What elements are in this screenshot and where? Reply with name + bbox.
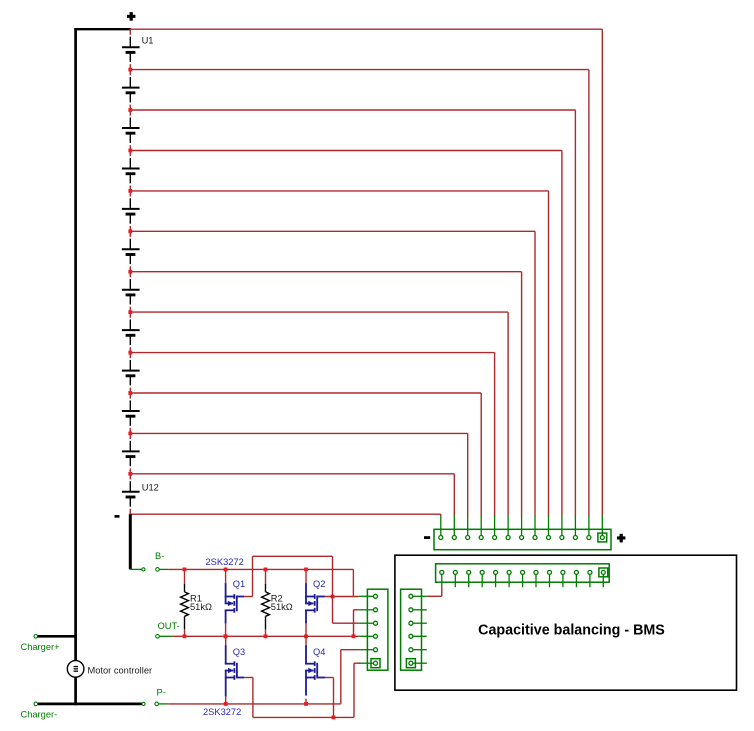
junction: tap 3 on battery string — [128, 108, 132, 112]
connector J4 pin 6 — [413, 662, 427, 664]
connector J2 pin 1 — [359, 595, 374, 597]
wire: Q3 gate to bottom gate wire — [237, 677, 244, 679]
battery cell U6 — [129, 231, 131, 237]
connector J3 pin 12 — [589, 574, 591, 587]
connector J3 pin 13 — [602, 574, 604, 587]
junction: tap 7 on battery string — [128, 270, 132, 274]
connector J3 pin 1 — [441, 574, 443, 587]
connector J4 pin 1 — [413, 595, 427, 597]
wire: P- rail riser to J2 pin 5 — [340, 650, 342, 704]
terminal: B- (circuit side) — [156, 568, 160, 572]
wire: P- rail — [168, 703, 340, 705]
svg-text:2SK3272: 2SK3272 — [203, 707, 241, 717]
wire: B- rail drop to J2 pin 1 — [352, 569, 354, 596]
connector J1 pin 13 — [601, 516, 603, 536]
junction: Q4 source on P- rail — [304, 702, 308, 706]
battery cell U3 — [129, 110, 131, 116]
battery cell U1 — [129, 29, 131, 35]
wire: balance tap 12 to connector pin 2 — [130, 473, 455, 475]
connector J1 pin 1 — [440, 516, 442, 536]
junction: Q2 drain on B- rail — [304, 568, 308, 572]
wire: balance tap 5 to connector pin 9 — [130, 190, 549, 192]
wire: Q1 gate to top gate wire — [237, 596, 244, 598]
junction: Q3 drain on OUT- rail — [224, 634, 228, 638]
wire: balance tap 6 to connector pin 8 — [130, 230, 535, 232]
wire: Q4 gate riser to bottom gate wire — [317, 677, 325, 679]
connector J1 pin 7 — [521, 516, 523, 536]
svg-text:51kΩ: 51kΩ — [271, 602, 293, 612]
wire: J2 pin 2 to OUT- rail — [354, 609, 359, 611]
battery cell U10 — [129, 393, 131, 399]
junction: tap 9 on battery string — [128, 351, 132, 355]
connector J3 pin 11 — [575, 574, 577, 587]
connector J4 body (BMS harness, module side) — [401, 589, 422, 670]
wire: balance tap 10 to connector pin 4 — [130, 392, 482, 394]
terminal: P- (circuit side) — [155, 702, 159, 706]
battery cell U7 — [129, 272, 131, 278]
junction: R2 top on B- rail — [264, 568, 268, 572]
resistor R2 51k — [265, 569, 267, 584]
connector J1 pin 5 — [494, 516, 496, 536]
connector J1 pin 3 — [467, 516, 469, 536]
svg-text:Charger+: Charger+ — [21, 642, 60, 652]
svg-text:2SK3272: 2SK3272 — [206, 557, 244, 567]
connector J3 pin 3 — [468, 574, 470, 587]
wire: Charger- / P- black wire — [38, 703, 142, 706]
connector J3 pin 10 — [562, 574, 564, 587]
svg-text:OUT-: OUT- — [158, 621, 180, 631]
wire: B- rail — [168, 568, 353, 570]
connector J1 pin 8 — [534, 516, 536, 536]
label: - (connector left) — [424, 536, 430, 539]
battery cell U5 — [129, 191, 131, 197]
wire: balance tap 11 to connector pin 3 — [130, 432, 468, 434]
junction: Q1 drain on B- rail — [224, 568, 228, 572]
wire: balance tap 1 to connector pin 13 — [130, 28, 603, 30]
junction: Q4 gate on bottom gate wire — [332, 716, 336, 720]
connector J2 body (BMS harness, circuit side) — [367, 589, 388, 670]
connector J4 pin 4 — [413, 635, 427, 637]
wire: balance tap 4 to connector pin 10 — [130, 150, 562, 152]
svg-text:P-: P- — [157, 688, 166, 698]
connector J3 pin 6 — [508, 574, 510, 587]
wire: Q4 source to P- rail (with break) — [305, 678, 307, 696]
svg-text:B-: B- — [155, 551, 164, 561]
wire: gate net drop to J2 pin 3 — [332, 556, 334, 623]
connector J4 pin 3 — [413, 622, 427, 624]
label: - (pack negative) — [115, 515, 120, 518]
battery cell U12 — [129, 474, 131, 480]
wire: Charger+ to bus (black) — [38, 635, 77, 638]
junction: Q3 source on P- rail — [224, 702, 228, 706]
wire: bottom gate wire riser to J2 pin 6 — [353, 663, 355, 717]
junction: Q2 source / Q4 drain on OUT- rail — [304, 634, 308, 638]
connector J1 pin 6 — [507, 516, 509, 536]
wire: balance tap 7 to connector pin 7 — [130, 271, 522, 273]
wire: balance tap 2 to connector pin 12 — [130, 69, 589, 71]
junction: R2 bottom on OUT- rail — [264, 634, 268, 638]
junction: tap 4 on battery string — [128, 149, 132, 153]
terminal: Charger+ — [34, 635, 38, 639]
resistor R1 51k — [184, 569, 186, 584]
wire: left bus vertical (black, pack+/charger/motor) — [74, 28, 77, 661]
junction: tap 6 on battery string — [128, 229, 132, 233]
wire: OUT- rail — [172, 635, 358, 637]
battery cell U4 — [129, 151, 131, 157]
connector J3 pin 7 — [522, 574, 524, 587]
connector J3 pin 9 — [549, 574, 551, 587]
connector J1 pin 2 — [453, 516, 455, 536]
junction: tap 12 on battery string — [128, 472, 132, 476]
connector J2 pin 6 — [359, 662, 374, 664]
battery cell U11 — [129, 433, 131, 439]
wire: Q3 source to P- rail — [225, 678, 227, 697]
connector J2 pin 3 — [359, 622, 374, 624]
junction: tap 2 on battery string — [128, 68, 132, 72]
label: + (pack positive) — [127, 15, 135, 18]
label: + (connector right) — [617, 536, 625, 539]
transistor Q1 2SK3272 — [233, 594, 235, 599]
svg-text:Motor controller: Motor controller — [88, 666, 153, 676]
terminal: B- (battery side) — [130, 568, 142, 570]
junction: tap 11 on battery string — [128, 432, 132, 436]
connector J1 pin 4 — [480, 516, 482, 536]
svg-text:Q1: Q1 — [233, 579, 245, 589]
wire: Q1 source to OUT- junction — [224, 634, 228, 638]
connector J1 pin 10 — [561, 516, 563, 536]
connector J1 pin 11 — [574, 516, 576, 536]
BMS module box — [395, 555, 737, 690]
connector J4 pin 2 — [413, 609, 427, 611]
wire: battery pack + top wire (black) — [74, 28, 131, 30]
terminal: P- (left side) — [142, 702, 145, 705]
junction: tap 8 on battery string — [128, 310, 132, 314]
wire: Q2 gate to J2 pin 1 — [317, 596, 325, 598]
svg-text:Q4: Q4 — [313, 647, 325, 657]
junction: pin2 riser on OUT- rail — [352, 634, 356, 638]
transistor Q3 2SK3272 — [233, 661, 235, 666]
wire: J3 pin1 to J4 pin1 (inside BMS) — [427, 595, 442, 597]
svg-text:Q3: Q3 — [233, 647, 245, 657]
svg-text:51kΩ: 51kΩ — [190, 602, 212, 612]
wire: balance tap 8 to connector pin 6 — [130, 311, 509, 313]
wire: battery negative to B- terminal (black) — [129, 514, 132, 569]
junction: gate net at (332.5,596.3) — [331, 595, 335, 599]
connector J1 body (balance lead connector) — [434, 529, 611, 549]
connector J2 pin 5 — [359, 649, 374, 651]
battery cell U2 — [129, 70, 131, 76]
junction: tap 5 on battery string — [128, 189, 132, 193]
wire: balance tap 13 to connector pin 1 — [130, 513, 441, 515]
svg-text:U12: U12 — [142, 482, 159, 492]
junction: R1 top on B- rail — [183, 568, 187, 572]
svg-text:U1: U1 — [142, 36, 154, 46]
junction: R1 bottom on OUT- rail — [183, 634, 187, 638]
terminal: OUT- — [156, 635, 160, 639]
connector J3 body (BMS balance input) — [436, 564, 610, 582]
junction: tap 10 on battery string — [128, 391, 132, 395]
motor controller M1 — [67, 661, 84, 678]
wire: balance tap 3 to connector pin 11 — [130, 109, 576, 111]
connector J3 pin 8 — [535, 574, 537, 587]
transistor Q2 2SK3272 — [314, 594, 316, 599]
svg-text:Capacitive balancing - BMS: Capacitive balancing - BMS — [478, 623, 665, 639]
connector J1 pin 9 — [548, 516, 550, 536]
svg-text:Q2: Q2 — [313, 579, 325, 589]
transistor Q4 2SK3272 — [314, 661, 316, 666]
connector J4 pin 5 — [413, 649, 427, 651]
wire: balance tap 9 to connector pin 5 — [130, 352, 495, 354]
connector J3 pin 2 — [454, 574, 456, 587]
wire: top gate wire (2SK3272 upper pair) — [253, 555, 333, 557]
connector J1 pin 12 — [588, 516, 590, 536]
battery cell U8 — [129, 312, 131, 318]
battery cell U9 — [129, 353, 131, 359]
connector J3 pin 5 — [495, 574, 497, 587]
terminal: Charger- — [34, 702, 38, 706]
connector J2 pin 2 — [359, 609, 374, 611]
connector J2 pin 4 — [359, 635, 374, 637]
connector J3 pin 4 — [481, 574, 483, 587]
wire: bottom gate wire (2SK3272 lower pair) — [253, 716, 354, 718]
svg-text:Charger-: Charger- — [21, 710, 58, 720]
